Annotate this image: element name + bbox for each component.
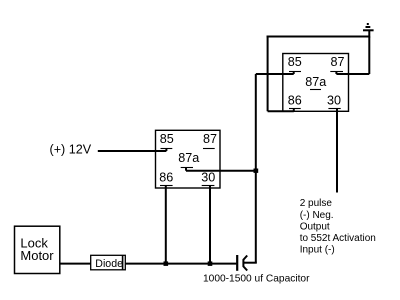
svg-text:30: 30 — [327, 94, 341, 108]
svg-text:Input (-): Input (-) — [300, 245, 335, 256]
pin 86 bar — [160, 185, 173, 187]
pin 87a tick — [185, 167, 187, 171]
pin 85 bar — [161, 148, 173, 150]
pin 87a bar — [310, 89, 321, 91]
node junction 86 wire — [164, 261, 169, 266]
pin 30 bar — [328, 108, 340, 110]
relay U1 (top) — [283, 54, 349, 112]
pin 87a bar — [181, 167, 193, 169]
svg-text:(+) 12V: (+) 12V — [50, 143, 92, 157]
pin 85 tick — [293, 71, 295, 74]
wire 86 down — [165, 186, 167, 264]
node junction 87a/85 — [254, 169, 259, 173]
pin 87 bar — [203, 148, 215, 150]
wire 30 down — [209, 186, 211, 264]
svg-text:Output: Output — [300, 221, 330, 232]
svg-text:to 552t Activation: to 552t Activation — [300, 233, 376, 244]
svg-text:Motor: Motor — [20, 248, 54, 263]
svg-text:85: 85 — [288, 55, 302, 69]
pin 85 tick — [165, 148, 167, 151]
pin 87 bar — [330, 71, 343, 73]
diode D1 — [91, 255, 126, 270]
wire 85 horizontal — [256, 73, 294, 75]
svg-text:(-) Neg.: (-) Neg. — [300, 210, 334, 221]
lock motor M1 — [15, 226, 60, 273]
node junction 30 wire — [208, 261, 213, 266]
wire riser 85 to capacitor — [255, 74, 257, 263]
capacitor C1 — [237, 255, 247, 271]
svg-text:86: 86 — [288, 94, 302, 108]
svg-text:86: 86 — [159, 171, 173, 185]
pin 85 bar — [289, 71, 301, 73]
svg-text:Diode: Diode — [95, 258, 123, 270]
svg-text:87a: 87a — [178, 151, 199, 165]
wire 87 to ground riser — [336, 73, 369, 75]
diode cathode bar — [122, 255, 124, 269]
pin 86 tick — [293, 108, 295, 111]
wire diode to capacitor — [125, 263, 236, 265]
relay U2 (middle) — [156, 130, 221, 188]
capacitor plate left — [236, 255, 238, 271]
capacitor plate curved — [243, 256, 247, 271]
pin 87 tick — [335, 71, 337, 74]
wire 86 to left vertical — [268, 110, 294, 112]
ground — [363, 24, 374, 38]
svg-text:1000-1500 uf Capacitor: 1000-1500 uf Capacitor — [203, 274, 310, 285]
svg-text:87a: 87a — [305, 75, 326, 89]
wire 87a to junction — [186, 170, 257, 172]
pin 86 bar — [289, 108, 301, 110]
svg-text:30: 30 — [201, 171, 215, 185]
svg-text:87: 87 — [203, 132, 217, 146]
pin 30 bar — [202, 185, 215, 187]
svg-text:2 pulse: 2 pulse — [300, 198, 333, 209]
wire output from 30 — [336, 108, 338, 193]
wire capacitor to riser — [243, 262, 256, 264]
svg-text:87: 87 — [330, 55, 344, 69]
svg-text:85: 85 — [160, 132, 174, 146]
wire left vertical to 86 — [267, 36, 269, 112]
wire 12V supply — [98, 150, 167, 152]
wire ground top — [267, 36, 370, 38]
wire motor to diode — [60, 263, 91, 265]
wire ground vertical — [368, 37, 370, 75]
